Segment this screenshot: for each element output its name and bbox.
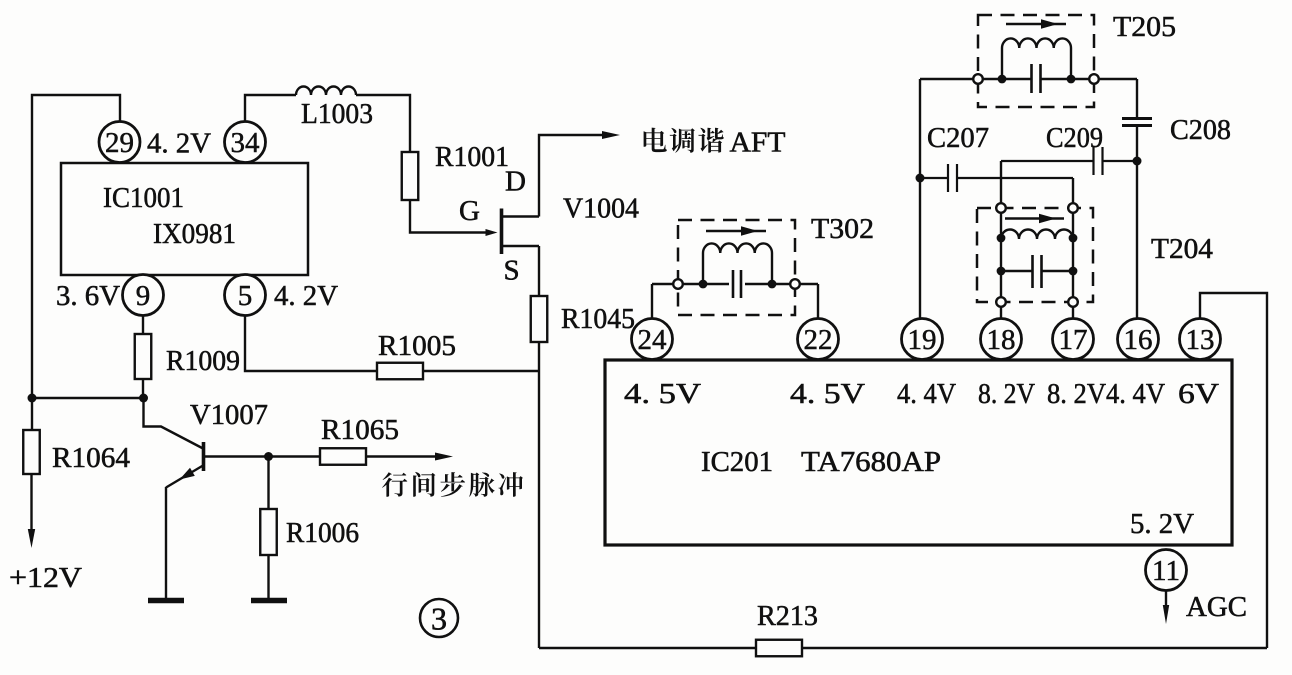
wire base rail <box>32 397 144 399</box>
wire C208 to C209 junction <box>1136 126 1138 162</box>
transformer T302 dashed box <box>678 220 795 315</box>
transformer T205 dashed box <box>978 15 1094 107</box>
svg-text:5. 2V: 5. 2V <box>1130 508 1194 540</box>
T302 terminals <box>673 279 683 289</box>
pin 13 <box>1180 319 1221 360</box>
T204 inductor <box>1001 230 1073 240</box>
wire R1005 to S line <box>423 370 539 372</box>
wire R1064 to +12V arrow <box>30 474 32 534</box>
wire pin34 to L1003 <box>245 95 296 122</box>
svg-text:IC201: IC201 <box>701 446 773 478</box>
svg-text:8. 2V: 8. 2V <box>978 378 1035 410</box>
svg-text:IX0981: IX0981 <box>153 218 236 250</box>
T302 arrow <box>706 230 766 232</box>
svg-text:R1001: R1001 <box>435 141 509 173</box>
wire pin13 bracket <box>1200 293 1267 648</box>
wire T204 to pin18 <box>1000 306 1002 319</box>
wire R1006 to ground <box>267 555 269 598</box>
svg-text:C209: C209 <box>1046 122 1103 154</box>
wire C209 to T204 left top <box>1000 161 1002 203</box>
svg-text:22: 22 <box>804 324 833 356</box>
wire drain to AFT arrow <box>539 135 606 217</box>
op-amp IC201 box <box>605 360 1232 545</box>
wire junction to R1006 <box>267 457 269 510</box>
svg-text:R1006: R1006 <box>286 517 359 549</box>
T205 capacitor plates <box>1032 64 1041 93</box>
wire C207 to T204 right top <box>1072 178 1074 203</box>
T204 capacitor <box>1001 255 1073 288</box>
wire T302 to pin22 <box>817 284 819 319</box>
svg-text:4. 2V: 4. 2V <box>147 128 211 160</box>
wire to pin16 <box>1136 161 1138 319</box>
svg-text:5: 5 <box>238 280 253 312</box>
svg-text:T204: T204 <box>1151 233 1214 265</box>
inductor L1003 <box>296 87 356 96</box>
wire T204 to pin17 <box>1072 306 1074 319</box>
T302 junction dots <box>699 280 708 289</box>
transistor V1004 <box>500 209 504 255</box>
op-amp IC1001 box <box>61 163 308 275</box>
svg-text:T302: T302 <box>811 213 874 245</box>
svg-text:IC1001: IC1001 <box>103 182 184 214</box>
node junction left <box>28 394 37 403</box>
resistor R1005 <box>377 363 423 380</box>
svg-text:+12V: +12V <box>9 562 82 594</box>
svg-text:S: S <box>504 255 520 287</box>
wire pin11 AGC arrow <box>1165 591 1167 613</box>
transistor V1007 <box>144 398 205 449</box>
capacitor C208 <box>1122 119 1152 126</box>
svg-text:3. 6V: 3. 6V <box>56 280 120 312</box>
svg-text:T205: T205 <box>1113 11 1176 43</box>
svg-text:D: D <box>505 166 526 198</box>
pin 34 <box>225 122 266 163</box>
T204 arrow <box>1005 217 1064 219</box>
svg-text:R1009: R1009 <box>166 345 240 377</box>
svg-text:4. 4V: 4. 4V <box>897 378 956 410</box>
svg-text:16: 16 <box>1124 324 1153 356</box>
resistor R1045 <box>531 296 548 342</box>
figure number 3 <box>420 599 458 637</box>
svg-text:C208: C208 <box>1170 114 1231 146</box>
T205 junction dots <box>998 75 1007 84</box>
T302 capacitor plates <box>733 270 741 298</box>
wire T205 right to C208 <box>1136 79 1138 119</box>
svg-text:13: 13 <box>1186 324 1215 356</box>
resistor R1064 <box>23 430 40 474</box>
svg-text:L1003: L1003 <box>301 98 373 130</box>
T205 wire through <box>920 78 1137 80</box>
wire bottom rail left <box>539 647 756 649</box>
svg-text:AGC: AGC <box>1186 591 1247 623</box>
wire pin5 to R1005 <box>245 315 377 371</box>
T205 inductor <box>1002 38 1071 79</box>
pin 5 <box>225 275 266 316</box>
resistor R1001 <box>402 152 419 200</box>
pin 24 <box>632 319 673 360</box>
pin 16 <box>1118 319 1159 360</box>
ground R1006 <box>251 598 287 604</box>
pin 18 <box>981 319 1022 360</box>
wire bottom rail right <box>802 647 1267 649</box>
svg-text:V1004: V1004 <box>563 193 639 225</box>
T204 cap dots <box>997 267 1006 276</box>
T302 inductor <box>703 243 772 284</box>
resistor R1006 <box>260 509 277 555</box>
svg-text:G: G <box>459 195 480 227</box>
svg-text:V1007: V1007 <box>190 399 268 431</box>
pin 11 <box>1146 550 1187 591</box>
svg-text:4. 5V: 4. 5V <box>790 378 865 410</box>
T204 inductor dots <box>997 234 1006 243</box>
transformer T204 dashed box <box>977 208 1093 302</box>
pin 22 <box>798 319 839 360</box>
T302 wire through <box>652 283 818 285</box>
wire T205 left drop <box>919 79 921 178</box>
capacitor C207 <box>920 164 1073 192</box>
resistor R1009 <box>135 334 152 379</box>
wire to pin19 <box>919 178 921 319</box>
svg-text:AFT: AFT <box>730 127 786 159</box>
pin 17 <box>1053 319 1094 360</box>
T205 arrow <box>1006 23 1066 25</box>
resistor R1065 <box>320 448 366 465</box>
svg-text:29: 29 <box>105 127 134 159</box>
svg-text:34: 34 <box>231 127 261 159</box>
svg-text:R1065: R1065 <box>321 414 399 446</box>
wire R1009 to rail <box>142 379 144 398</box>
node C209 junction <box>1133 157 1142 166</box>
T204 columns <box>1001 212 1073 298</box>
svg-text:9: 9 <box>136 280 151 312</box>
svg-text:4. 5V: 4. 5V <box>624 378 701 410</box>
svg-text:6V: 6V <box>1178 378 1219 410</box>
svg-text:17: 17 <box>1059 324 1088 356</box>
wire left rail top <box>32 95 120 430</box>
svg-text:18: 18 <box>987 324 1016 356</box>
svg-text:24: 24 <box>638 324 668 356</box>
svg-text:4. 4V: 4. 4V <box>1106 378 1165 410</box>
wire base to R1065 <box>205 455 320 457</box>
pin 9 <box>123 275 164 316</box>
svg-text:3: 3 <box>431 601 447 637</box>
svg-text:11: 11 <box>1152 555 1180 587</box>
wire pin9 to R1009 <box>142 315 144 334</box>
wire R1001 to gate <box>410 200 486 233</box>
T204 terminals <box>996 203 1006 213</box>
wire R1045 to bottom rail <box>538 342 540 648</box>
svg-text:R1045: R1045 <box>561 303 635 335</box>
resistor R213 <box>756 640 802 657</box>
wire R1065 arrow out <box>366 455 440 457</box>
svg-text:19: 19 <box>908 324 937 356</box>
svg-text:R1005: R1005 <box>378 330 456 362</box>
wire source down <box>538 246 540 296</box>
capacitor C209 <box>1001 147 1137 175</box>
wire T302 to pin24 <box>651 284 653 319</box>
node junction R1009 <box>139 394 148 403</box>
svg-text:TA7680AP: TA7680AP <box>801 446 941 478</box>
svg-text:4. 2V: 4. 2V <box>274 280 338 312</box>
wire L1003 to R1001 <box>356 95 410 152</box>
pin 19 <box>902 319 943 360</box>
svg-text:R213: R213 <box>757 600 818 632</box>
node C207 junction <box>916 174 925 183</box>
node AFT label 电调谐AFT <box>644 128 724 153</box>
node base junction <box>264 452 273 461</box>
svg-text:8. 2V: 8. 2V <box>1047 378 1106 410</box>
svg-text:C207: C207 <box>927 122 989 154</box>
T205 terminals <box>973 74 983 84</box>
svg-text:R1064: R1064 <box>52 442 131 474</box>
node sync label 行间步脉冲 <box>382 472 523 497</box>
pin 29 <box>99 122 140 163</box>
ground emitter <box>148 598 184 604</box>
